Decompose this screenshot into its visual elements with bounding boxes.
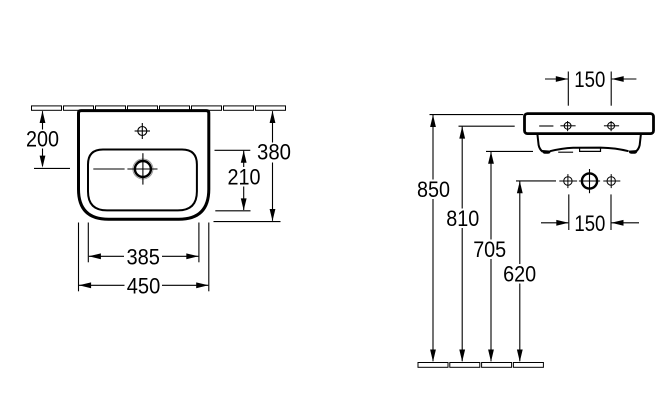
drain side cross left xyxy=(559,174,577,188)
svg-text:450: 450 xyxy=(127,273,161,298)
dimension 705 xyxy=(486,151,533,361)
fixing hole left (rear view) xyxy=(560,121,575,131)
fixing hole centerline dash xyxy=(539,125,553,127)
drain hole (rear view) xyxy=(579,169,600,193)
svg-text:705: 705 xyxy=(473,237,506,262)
dimension 850 xyxy=(430,115,524,362)
dimension 450 xyxy=(79,223,209,292)
dimension 385 xyxy=(88,223,199,263)
svg-text:385: 385 xyxy=(126,244,160,269)
faucet hole xyxy=(127,153,157,184)
svg-text:210: 210 xyxy=(228,165,261,190)
svg-text:200: 200 xyxy=(26,127,59,152)
dimension 150 bottom xyxy=(541,194,639,230)
pedestal / semi-pedestal outline xyxy=(537,134,641,151)
dimension 210 xyxy=(215,150,251,211)
faucet centerline dash left xyxy=(93,168,124,170)
basin outer outline (front view) xyxy=(79,111,209,220)
overflow hole cross xyxy=(135,123,150,139)
dimension 200 xyxy=(34,111,70,168)
svg-text:150: 150 xyxy=(574,211,605,236)
wall hatch band (front view) xyxy=(32,106,286,110)
floor hatch band xyxy=(418,363,543,368)
fixing hole right (rear view) xyxy=(604,121,619,131)
svg-text:810: 810 xyxy=(446,206,479,231)
dimension 810 xyxy=(459,126,515,361)
drain side cross right xyxy=(603,174,620,188)
pedestal bottom notch xyxy=(580,148,601,152)
dimension 380 xyxy=(214,111,281,221)
inner bowl outline xyxy=(88,150,197,211)
pedestal centerline dash xyxy=(558,151,573,153)
dimension 150 top xyxy=(545,72,636,106)
pedestal right foot xyxy=(629,150,637,154)
dimension 620 xyxy=(516,181,556,361)
slab / basin rear view body xyxy=(525,114,654,134)
svg-text:620: 620 xyxy=(503,262,536,287)
pedestal left foot xyxy=(542,150,550,154)
svg-text:380: 380 xyxy=(257,140,291,165)
svg-text:150: 150 xyxy=(574,67,605,92)
svg-text:850: 850 xyxy=(417,177,450,202)
